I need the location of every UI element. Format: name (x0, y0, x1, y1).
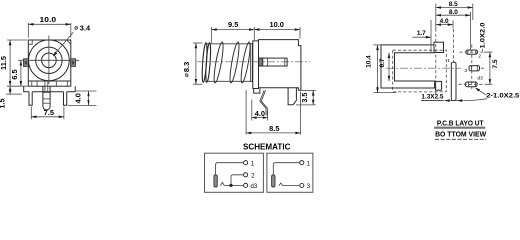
P.C.B LAYOUT title (434, 118, 485, 128)
front view bottom flange line (28, 80, 71, 82)
wire to pin d3 (224, 184, 243, 186)
dimension 4.0 bottom (252, 100, 268, 121)
junction dot (229, 184, 232, 187)
main horizontal centerline (386, 67, 461, 69)
wire to pin 3 right (283, 185, 300, 187)
pin d3 label (251, 184, 258, 190)
dimension 6.5 left (10, 60, 23, 86)
svg-text:10.4: 10.4 (365, 55, 372, 68)
BOTTOM VIEW title (435, 129, 486, 139)
pad pin 2 (466, 50, 478, 54)
svg-text:7.5: 7.5 (44, 108, 54, 117)
svg-text:BO TTOM VIEW: BO TTOM VIEW (435, 129, 486, 138)
bottom step plate with side ears (24, 86, 75, 92)
svg-text:6.5: 6.5 (10, 69, 19, 79)
dimension 1.7 (413, 20, 432, 53)
barrel end wire loop outer (201, 43, 208, 83)
coil turn 1 (212, 42, 225, 84)
mounting flange (253, 41, 259, 89)
svg-text:10.0: 10.0 (270, 20, 284, 29)
pads vertical dashed centerline (471, 45, 473, 92)
pad 3 horizontal dashes (481, 67, 486, 69)
svg-text:d3: d3 (251, 184, 258, 190)
dimension 10.4 left (365, 45, 396, 93)
svg-text:3.4: 3.4 (80, 24, 91, 33)
svg-text:2: 2 (478, 53, 481, 59)
svg-text:4.0: 4.0 (255, 109, 265, 118)
sleeve contact bar left (214, 175, 217, 187)
svg-text:8.5: 8.5 (449, 1, 458, 8)
pad d3 horizontal dashes (459, 83, 486, 85)
dimension 7.5 bottom (31, 107, 64, 120)
svg-text:SCHEMATIC: SCHEMATIC (243, 142, 290, 152)
dimension 10.0 top (28, 15, 71, 37)
side view centerline (197, 61, 310, 63)
dimension dia 8.3 left (182, 43, 202, 84)
center contact pin (259, 58, 288, 66)
wire sleeve to pin 1 left (216, 163, 244, 175)
FRONT VIEW GROUP (0, 15, 97, 119)
dimension 1.5 left (0, 86, 22, 108)
dimension 3.5 right (296, 90, 316, 105)
barrel silhouette top edge (205, 43, 253, 45)
svg-text:2-1.0X2.5: 2-1.0X2.5 (486, 92, 520, 99)
flange bottom step (254, 89, 260, 94)
dimension 1.3X2.5 label (421, 94, 444, 101)
bent solder pin (260, 90, 268, 115)
dimension 4.0 top (436, 18, 453, 28)
schematic right box (267, 153, 313, 192)
front view boss vertical left (36, 81, 38, 86)
front view corner post left (31, 81, 33, 86)
dimension 9.5 top (212, 20, 255, 43)
dimension 4.0 right (68, 91, 97, 105)
left dashed extension vertical (435, 29, 437, 96)
pin 3 circle right (300, 183, 304, 187)
inner jack hole circle (42, 53, 57, 68)
pin d3 circle (244, 183, 248, 187)
wire sleeve to pin 1 right (273, 163, 299, 175)
pin d3 label (477, 76, 483, 82)
pin 2 label left (251, 173, 255, 179)
SCHEMATIC GROUP (205, 142, 313, 193)
svg-text:3.5: 3.5 (300, 92, 309, 102)
dimension dia 3.4 leader (53, 24, 91, 57)
pad pin 3 (469, 66, 480, 71)
dimension 11.5 left (0, 40, 27, 86)
front view top-left corner notch (28, 40, 32, 44)
coil turn 2 (228, 42, 241, 84)
pin 3 label right (307, 184, 311, 190)
svg-text:11.5: 11.5 (0, 56, 8, 70)
sleeve contact bar right (272, 175, 275, 187)
SIDE VIEW GROUP (182, 20, 316, 135)
front view corner post right (66, 81, 68, 86)
pin 1 label right (307, 161, 311, 167)
right mounting leg (64, 92, 67, 106)
schematic left box (205, 153, 264, 192)
dimension 8.5 bottom (246, 90, 301, 135)
right side tab (71, 59, 76, 67)
component dashed outline (393, 50, 447, 92)
dimension 7.5 right (484, 52, 499, 84)
coil turn 3 (239, 42, 252, 84)
pad pin d3 (465, 82, 477, 87)
pin 1 label left (251, 161, 255, 167)
left mounting leg (29, 92, 32, 106)
barrel silhouette bottom edge (205, 80, 253, 82)
dimension 10.0 top (254, 20, 300, 38)
svg-text:8.0: 8.0 (449, 9, 458, 16)
dimension 8.0 top (436, 9, 471, 50)
side view body outline (259, 40, 301, 91)
svg-text:P.C.B LAYO UT: P.C.B LAYO UT (437, 118, 484, 127)
pin 1 label (447, 58, 450, 64)
svg-text:6.7: 6.7 (379, 58, 386, 67)
tall pad vertical dashed line (453, 29, 455, 62)
center pin shank (43, 81, 50, 110)
svg-text:8.5: 8.5 (269, 124, 279, 133)
pin 3 label (464, 68, 467, 74)
dimension 1.0X2.0 leader (480, 22, 487, 52)
svg-text:1.5: 1.5 (0, 98, 7, 108)
svg-text:1.0X2.0: 1.0X2.0 (480, 22, 487, 49)
svg-text:1: 1 (447, 58, 450, 64)
svg-text:4.0: 4.0 (74, 93, 83, 103)
svg-text:9.5: 9.5 (228, 20, 238, 29)
outer barrel circle (29, 40, 70, 81)
schematic title (243, 142, 290, 152)
horizontal centerline (23, 59, 79, 61)
pin 1 circle left (244, 161, 248, 165)
svg-text:d3: d3 (477, 76, 483, 82)
left side tab (24, 59, 29, 67)
tall vertical pad pin 1 (451, 62, 456, 100)
pin 1 circle right (300, 161, 304, 165)
dimension 8.5 top (436, 1, 473, 28)
svg-text:4.0: 4.0 (440, 18, 449, 25)
pin 2 circle left (244, 173, 248, 177)
top right pad (434, 42, 444, 52)
pad 2 horizontal dashes (460, 51, 485, 53)
C-shaped shield pad (381, 45, 435, 88)
barrel end wire loop inner (205, 43, 212, 83)
front view boss vertical right (55, 81, 57, 86)
front view top-right corner chamfer (67, 40, 71, 44)
vertical centerline (48, 36, 50, 85)
svg-text:10.0: 10.0 (40, 15, 57, 24)
switch contact left (220, 182, 224, 185)
svg-text:8.3: 8.3 (182, 62, 191, 72)
middle barrel circle (36, 47, 62, 73)
middle foot (288, 88, 296, 105)
front view body outline (28, 40, 71, 86)
PCB LAYOUT GROUP (365, 1, 519, 139)
dimension 6.7 left (379, 53, 390, 81)
pin 2 label (478, 53, 481, 59)
switch contact right (279, 183, 283, 186)
coil last compressed turn (250, 43, 252, 82)
svg-text:7.5: 7.5 (492, 59, 499, 68)
wire pin 2 left (231, 175, 243, 186)
svg-text:1.7: 1.7 (417, 30, 426, 37)
bottom square pad (436, 81, 442, 90)
svg-text:3: 3 (464, 68, 467, 74)
dimension 2-1.0X2.5 label and leaders (445, 88, 520, 102)
svg-text:1.3X2.5: 1.3X2.5 (421, 94, 444, 101)
